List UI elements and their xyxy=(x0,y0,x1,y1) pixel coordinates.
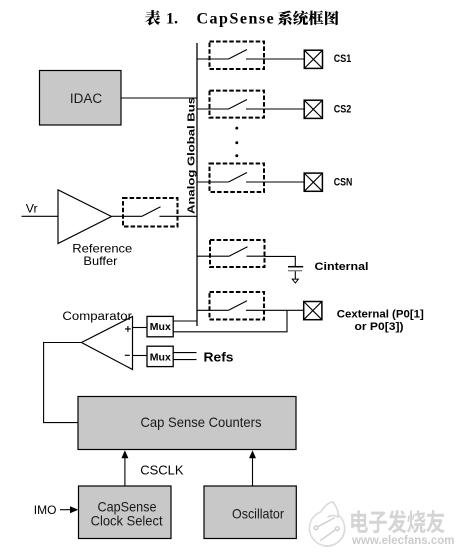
svg-text:1.: 1. xyxy=(166,11,178,28)
switch S3 (CSN) xyxy=(197,164,264,193)
Cap Sense Counters block xyxy=(78,397,296,450)
switch S4 (Cinternal) xyxy=(197,240,265,267)
minus input mark xyxy=(125,354,130,356)
wire comparator minus input xyxy=(133,355,148,357)
wire IDAC to bus xyxy=(121,97,197,99)
op-amp U1 reference buffer xyxy=(58,190,112,244)
Oscillator block xyxy=(204,486,296,539)
svg-text:Comparator: Comparator xyxy=(62,311,132,323)
svg-text:CapSense: CapSense xyxy=(98,499,157,514)
wire IMO arrow xyxy=(60,506,78,513)
svg-text:Mux: Mux xyxy=(150,352,171,363)
plus input mark xyxy=(125,326,131,332)
svg-text:CS1: CS1 xyxy=(334,53,352,65)
svg-text:Vr: Vr xyxy=(26,202,38,216)
wire Oscillator arrow xyxy=(249,450,256,486)
svg-text:Cap Sense Counters: Cap Sense Counters xyxy=(141,415,262,430)
svg-text:CSN: CSN xyxy=(334,177,353,189)
ellipsis dots between CS2 and CSN xyxy=(235,127,238,157)
svg-text:IDAC: IDAC xyxy=(70,91,103,106)
switch S6 (reference buffer) xyxy=(123,198,178,227)
svg-text:Oscillator: Oscillator xyxy=(232,507,284,522)
svg-text:Clock Select: Clock Select xyxy=(91,514,163,529)
IDAC block xyxy=(40,71,122,126)
svg-text:Cinternal: Cinternal xyxy=(315,261,369,273)
wire S4 to Cinternal xyxy=(265,256,296,266)
svg-text:CS2: CS2 xyxy=(334,103,352,115)
mux U3 (top) xyxy=(147,316,173,336)
op-amp U2 comparator xyxy=(82,317,133,370)
svg-text:IMO: IMO xyxy=(34,503,57,517)
wire Refs double lines xyxy=(173,353,196,360)
svg-text:or P0[3]): or P0[3]) xyxy=(355,321,404,333)
watermark logo disc xyxy=(309,502,344,546)
title: 表 1. CapSense 系统框图 xyxy=(145,10,339,28)
svg-text:Mux: Mux xyxy=(150,322,171,333)
svg-text:CSCLK: CSCLK xyxy=(140,463,184,478)
pad Cexternal xyxy=(304,302,322,320)
wire comparator output to counters xyxy=(44,343,82,423)
pad CSN xyxy=(304,173,322,191)
wire comparator plus input xyxy=(133,327,148,329)
svg-text:Buffer: Buffer xyxy=(83,254,117,268)
capacitor Cinternal xyxy=(288,267,303,279)
wire mux U3 to Cexternal node xyxy=(173,310,287,332)
wire S1 to CS1 pad xyxy=(264,58,304,60)
switch S2 (CS2) xyxy=(197,91,264,118)
switch S5 (Cexternal) xyxy=(197,292,264,320)
svg-text:Refs: Refs xyxy=(204,350,234,364)
svg-text:CapSense: CapSense xyxy=(197,11,276,28)
wire buffer to S6 xyxy=(112,215,124,217)
svg-text:Analog Global Bus: Analog Global Bus xyxy=(186,97,197,214)
pad CS1 xyxy=(304,50,322,68)
pad CS2 xyxy=(304,100,322,118)
wire S5 to Cexternal pad xyxy=(264,309,304,311)
wire mux U3 to bus xyxy=(173,320,197,322)
wire S2 to CS2 pad xyxy=(264,108,304,110)
svg-text:www.elecfans.com: www.elecfans.com xyxy=(351,535,454,547)
ground (open arrow) xyxy=(292,279,298,283)
mux U4 (bottom) xyxy=(147,346,173,366)
Analog Global Bus vertical line xyxy=(196,43,198,326)
wire Vr to buffer xyxy=(22,215,59,217)
wire CSCLK arrow xyxy=(121,450,128,486)
svg-text:Cexternal (P0[1]: Cexternal (P0[1] xyxy=(337,309,424,321)
watermark 电子发烧友 xyxy=(351,510,444,533)
CapSense Clock Select block xyxy=(79,486,172,539)
switch S1 (CS1) xyxy=(197,42,264,70)
wire S6 to bus xyxy=(178,215,198,217)
wire S3 to CSN pad xyxy=(264,181,304,183)
